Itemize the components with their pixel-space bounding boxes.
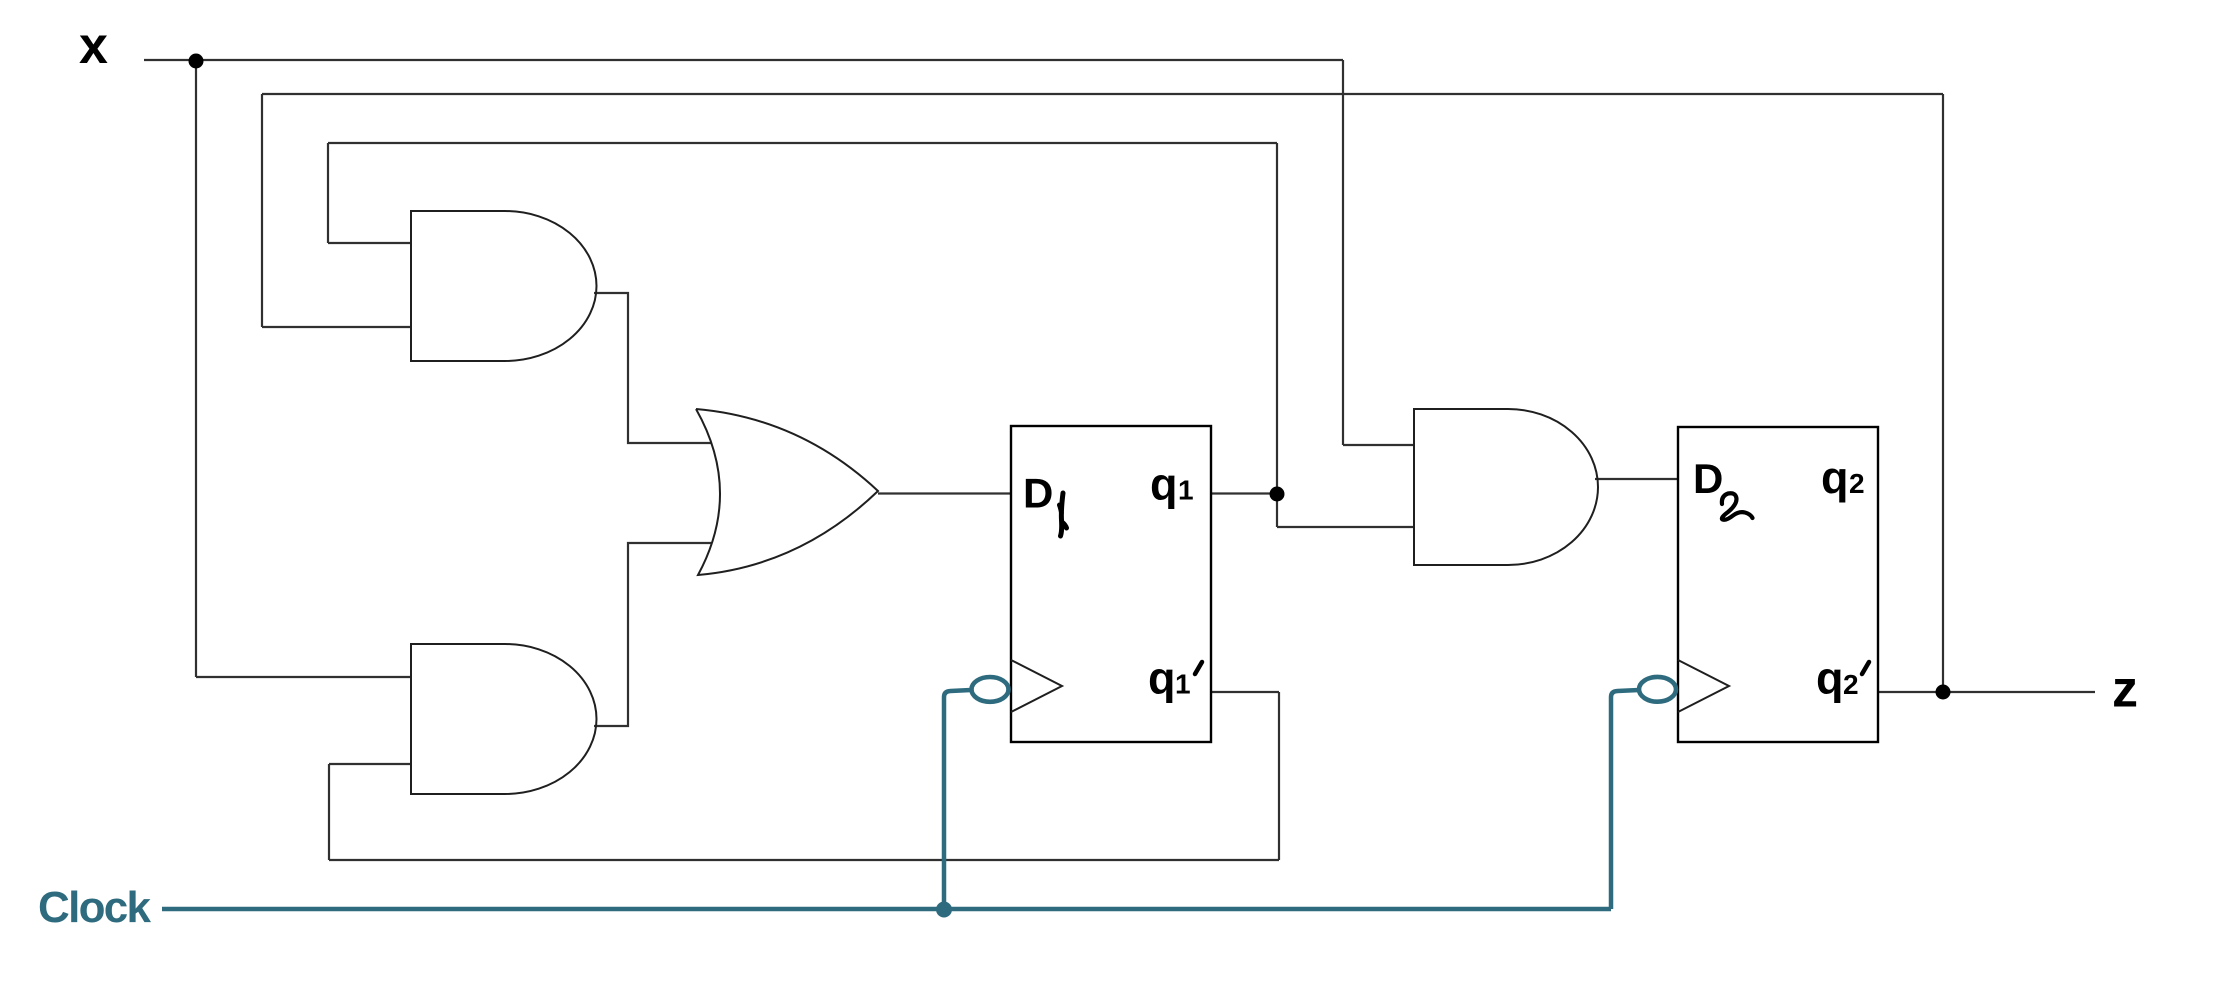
node z junction <box>1936 685 1951 700</box>
and-gate A1 <box>411 211 597 361</box>
wire AND2 output to D2 <box>1595 478 1678 480</box>
wire x input horizontal <box>144 59 1343 61</box>
flip-flop U1 clock triangle <box>1011 660 1062 712</box>
svg-text:1: 1 <box>1178 475 1194 506</box>
wire q2' right vertical <box>1942 94 1944 692</box>
svg-text:Clock: Clock <box>38 883 152 932</box>
wire x to AND2 upper input <box>1343 444 1414 446</box>
node x junction <box>189 54 204 69</box>
node clock junction <box>936 902 952 918</box>
clock wire riser to U1 <box>944 690 971 909</box>
prime mark q2' <box>1862 662 1869 674</box>
wire q1 output stub <box>1211 492 1277 494</box>
flip-flop U1 box <box>1011 426 1211 742</box>
wire q2' to AND1 lower input <box>262 326 412 328</box>
svg-text:2: 2 <box>1843 669 1859 700</box>
handwritten subscript 1 on D1 <box>1060 493 1067 536</box>
svg-text:2: 2 <box>1849 468 1865 499</box>
wire x to AND3 upper input <box>196 676 412 678</box>
and-gate A2 (bottom) <box>411 644 597 794</box>
wire q1' feedback bottom horizontal <box>329 859 1279 861</box>
svg-text:x: x <box>79 17 108 75</box>
wire q1 feedback horizontal <box>328 142 1277 144</box>
wire q1' to AND3 lower input <box>329 763 412 765</box>
node q1 junction <box>1270 487 1285 502</box>
wire q1 to AND2 lower input <box>1277 526 1414 528</box>
svg-text:q: q <box>1821 452 1849 503</box>
svg-text:q: q <box>1150 459 1178 510</box>
clock wire riser to U2 <box>1611 690 1639 909</box>
wire x right vertical drop <box>1342 60 1344 445</box>
handwritten subscript 2 on D2 <box>1722 493 1753 520</box>
svg-text:q: q <box>1816 653 1844 704</box>
wire q1 feedback left vertical <box>327 143 329 243</box>
svg-text:D: D <box>1693 455 1723 502</box>
wire x left vertical drop <box>195 60 197 677</box>
wire q1 right vertical <box>1276 143 1278 527</box>
wire q1 to AND1 upper input <box>328 242 412 244</box>
or-gate O1 <box>696 409 878 575</box>
prime mark q1' <box>1195 662 1202 674</box>
svg-text:1: 1 <box>1175 669 1191 700</box>
clock bubble U1 <box>972 677 1009 702</box>
wire AND1 output to OR upper input <box>594 293 712 443</box>
wire q2' feedback top horizontal <box>262 93 1943 95</box>
wire q1' feedback left vertical <box>328 764 330 860</box>
flip-flop U2 box <box>1678 427 1878 742</box>
and-gate A3 (right) <box>1414 409 1598 565</box>
wire q1' feedback vertical right <box>1278 692 1280 860</box>
wire q2' feedback left vertical <box>261 94 263 327</box>
svg-text:D: D <box>1023 470 1053 517</box>
clock wire horizontal <box>162 907 1611 912</box>
svg-text:z: z <box>2112 661 2138 719</box>
wire AND3 output to OR lower input <box>594 543 712 726</box>
flip-flop U2 clock triangle <box>1678 660 1729 712</box>
wire q1' output stub <box>1211 691 1279 693</box>
svg-text:q: q <box>1148 653 1176 704</box>
wire OR output to D1 <box>878 492 1011 494</box>
wire q2' output to z <box>1878 691 2095 693</box>
clock bubble U2 <box>1639 677 1676 702</box>
